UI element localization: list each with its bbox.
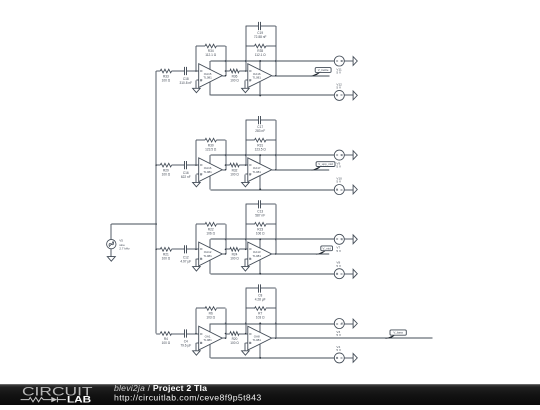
node op2 inverting input junction (245, 333, 247, 335)
svg-text:106 Ω: 106 Ω (256, 232, 265, 236)
op-amp OA15 (199, 64, 223, 88)
svg-text:TL081: TL081 (252, 170, 261, 174)
svg-text:103 Ω: 103 Ω (206, 316, 215, 320)
wire feedback1 right leg (225, 309, 227, 339)
wire output net V_treble (276, 75, 330, 77)
node op2 V- junction (259, 357, 261, 359)
svg-text:106 Ω: 106 Ω (206, 232, 215, 236)
op-amp OA1 (199, 326, 223, 350)
op-amp OA8 (248, 326, 272, 350)
ground (V- source return) (344, 269, 357, 278)
svg-text:V_mid: V_mid (323, 246, 332, 250)
resistor R29 (156, 163, 185, 176)
ground (op2 non-inverting input) (242, 343, 250, 355)
wire op2 V+ pin (259, 324, 261, 333)
resistor R4 (156, 332, 185, 345)
wire op1 V- pin (209, 176, 211, 190)
svg-text:310.8 nF: 310.8 nF (180, 81, 193, 85)
capacitor C4 (180, 329, 198, 347)
ground (V+ source return) (344, 235, 357, 244)
wire V- supply rail (211, 94, 335, 96)
wire op2 V- pin (259, 344, 261, 358)
voltage source V9 (334, 150, 344, 169)
node op2 inverting input junction (245, 164, 247, 166)
svg-text:4.97 µF: 4.97 µF (180, 259, 191, 263)
svg-text:283 nF: 283 nF (255, 129, 265, 133)
ground (op1 non-inverting input) (193, 259, 201, 271)
wire op1 V- pin (209, 344, 211, 358)
wire V- supply rail (211, 273, 335, 275)
CircuitLab logo resistor-diode squiggle (21, 397, 66, 402)
wire V- supply rail (211, 357, 335, 359)
ground (V+ source return) (344, 319, 357, 328)
node op1 inverting input junction (195, 164, 197, 166)
wire op2 output stub (272, 253, 276, 255)
node op2 V- junction (259, 94, 261, 96)
node op2 output (275, 253, 277, 255)
wire op2 V+ pin (259, 239, 261, 248)
svg-text:72.88 nF: 72.88 nF (254, 35, 267, 39)
svg-text:4.28 µF: 4.28 µF (255, 298, 266, 302)
ground (op2 non-inverting input) (242, 80, 250, 93)
svg-text:100 Ω: 100 Ω (162, 172, 171, 176)
node net flag V_mid (316, 246, 333, 255)
node op2 V+ junction (259, 60, 261, 62)
resistor R24 (226, 247, 248, 260)
resistor R32 (226, 163, 248, 176)
op-amp OA17 (248, 158, 272, 182)
svg-text:V_upp_mid: V_upp_mid (318, 162, 333, 166)
svg-text:103 Ω: 103 Ω (256, 316, 265, 320)
wire V+ supply rail (211, 60, 335, 62)
svg-text:TL081: TL081 (203, 338, 212, 342)
node op1 feedback/input (225, 70, 227, 72)
voltage source V3 (334, 319, 344, 338)
resistor R34 (op1 feedback) (196, 44, 226, 76)
resistor R20 (226, 332, 248, 345)
wire feedback1 right leg (225, 140, 227, 170)
node rail crossing marks (225, 322, 277, 324)
ground (op2 non-inverting input) (242, 259, 250, 271)
voltage source V4 (334, 345, 344, 363)
ground (V- source return) (344, 354, 357, 363)
svg-text:TL081: TL081 (252, 254, 261, 258)
svg-text:TL081: TL081 (252, 76, 261, 80)
capacitor C8 (op2 feedback) (246, 284, 276, 333)
node op2 output (275, 169, 277, 171)
wire V+ supply rail (211, 154, 335, 156)
node op2 V- junction (259, 273, 261, 275)
node rail crossing marks (225, 238, 277, 240)
wire op2 V+ pin (259, 61, 261, 70)
wire op1 V+ pin (209, 324, 211, 333)
svg-text:100 Ω: 100 Ω (230, 78, 239, 82)
capacitor C17 (op2 feedback) (246, 116, 276, 165)
voltage source V8 (334, 261, 344, 279)
wire V- supply rail (211, 189, 335, 191)
svg-text:112.1 Ω: 112.1 Ω (205, 53, 217, 57)
wire op2 V- pin (259, 176, 261, 190)
svg-text:123.5 Ω: 123.5 Ω (205, 147, 217, 151)
wire feedback2 right leg (275, 120, 277, 170)
wire op2 V- pin (259, 82, 261, 96)
wire feedback2 right leg (275, 204, 277, 254)
resistor R31 (op2 feedback) (246, 120, 276, 170)
wire op2 output stub (272, 169, 276, 171)
node net flag V_treble (310, 68, 331, 77)
resistor R30 (op1 feedback) (196, 138, 226, 170)
wire op1 V+ pin (209, 239, 211, 248)
node source/bus junction (155, 223, 157, 225)
svg-text:79.6 µF: 79.6 µF (180, 344, 191, 348)
voltage source V11 (334, 56, 344, 75)
svg-text:V_bass: V_bass (393, 331, 403, 335)
svg-text:TL081: TL081 (252, 338, 261, 342)
wire op1 V- pin (209, 82, 211, 96)
svg-text:100 Ω: 100 Ω (230, 341, 239, 345)
ground (V- source return) (344, 91, 357, 100)
node rail crossing marks (225, 60, 277, 62)
wire feedback2 right leg (275, 289, 277, 339)
resistor R33 (156, 69, 185, 82)
node op2 output (275, 75, 277, 77)
svg-text:V_treble: V_treble (318, 68, 329, 72)
resistor R21 (156, 247, 185, 260)
op-amp OA13 (248, 242, 272, 266)
node op1 feedback/input (225, 164, 227, 166)
svg-text:TL081: TL081 (203, 170, 212, 174)
wire source to bus (111, 224, 156, 239)
resistor R35 (op2 feedback) (246, 26, 276, 76)
voltage source V10 (334, 177, 344, 195)
ground (V+ source return) (344, 151, 357, 160)
op-amp OA16 (248, 64, 272, 88)
node op2 V+ junction (259, 323, 261, 325)
wire op2 V- pin (259, 260, 261, 274)
wire output net V_mid (276, 253, 330, 255)
node op1 output (225, 337, 227, 339)
wire feedback1 right leg (225, 46, 227, 76)
resistor R6 (op1 feedback) (196, 307, 226, 339)
node op2 inverting input junction (245, 70, 247, 72)
wire op2 V+ pin (259, 155, 261, 164)
svg-text:622 nF: 622 nF (181, 175, 191, 179)
node op1 feedback/input (225, 249, 227, 251)
ground (op1 non-inverting input) (193, 80, 201, 93)
resistor R7 (op2 feedback) (246, 289, 276, 339)
wire op1 output stub (222, 253, 225, 255)
svg-text:100 Ω: 100 Ω (162, 257, 171, 261)
wire op1 V+ pin (209, 155, 211, 164)
svg-text:100 Ω: 100 Ω (162, 341, 171, 345)
svg-text:100 Ω: 100 Ω (230, 172, 239, 176)
node op2 V+ junction (259, 154, 261, 156)
node op2 inverting input junction (245, 249, 247, 251)
svg-text:123.5 Ω: 123.5 Ω (255, 147, 267, 151)
ground (op1 non-inverting input) (193, 343, 201, 355)
wire output net V_bass (276, 337, 433, 339)
wire op2 output stub (272, 75, 276, 77)
wire op2 output stub (272, 337, 276, 339)
ground (op2 non-inverting input) (242, 174, 250, 187)
wire feedback2 right leg (275, 26, 277, 76)
capacitor C16 (181, 161, 199, 179)
node op2 V+ junction (259, 238, 261, 240)
wire V+ supply rail (211, 323, 335, 325)
node net flag V_upp_mid (311, 162, 335, 171)
wire op1 output stub (222, 337, 225, 339)
svg-text:http://circuitlab.com/ceve8f9p: http://circuitlab.com/ceve8f9p5t843 (114, 392, 262, 402)
node bus/stage2 junction (155, 164, 157, 166)
wire input bus (155, 71, 157, 334)
wire output net V_upp_mid (276, 169, 330, 171)
voltage source V5 (sine input) (107, 239, 131, 251)
node op1 inverting input junction (195, 333, 197, 335)
wire op1 V- pin (209, 260, 211, 274)
wire op1 output stub (222, 169, 225, 171)
node op1 feedback/input (225, 333, 227, 335)
node rail crossing marks (225, 154, 277, 156)
svg-text:TL081: TL081 (203, 254, 212, 258)
ground (op1 non-inverting input) (193, 174, 201, 187)
node bus/stage3 junction (155, 249, 157, 251)
node op2 output (275, 337, 277, 339)
op-amp OA12 (199, 242, 223, 266)
wire feedback1 right leg (225, 224, 227, 254)
node op1 output (225, 253, 227, 255)
capacitor C13 (op2 feedback) (246, 200, 276, 249)
resistor R22 (op1 feedback) (196, 222, 226, 254)
svg-text:100 Ω: 100 Ω (162, 78, 171, 82)
node op1 output (225, 169, 227, 171)
resistor R23 (op2 feedback) (246, 204, 276, 254)
wire V+ supply rail (211, 238, 335, 240)
svg-text:TL081: TL081 (203, 76, 212, 80)
svg-text:LAB: LAB (67, 395, 92, 405)
capacitor C18 (180, 67, 199, 85)
svg-text:2.7 kHz: 2.7 kHz (119, 247, 130, 251)
svg-text:587 nF: 587 nF (255, 213, 265, 217)
op-amp OA16 (199, 158, 223, 182)
voltage source V12 (334, 82, 344, 100)
resistor R36 (226, 69, 248, 82)
wire op1 output stub (222, 75, 225, 77)
wire op1 V+ pin (209, 61, 211, 70)
svg-text:100 Ω: 100 Ω (230, 257, 239, 261)
node op2 V- junction (259, 189, 261, 191)
ground (below source V5) (107, 249, 115, 261)
capacitor C12 (180, 245, 198, 263)
voltage source V7 (334, 234, 344, 253)
capacitor C19 (op2 feedback) (246, 22, 276, 71)
node op1 inverting input junction (195, 249, 197, 251)
node op1 inverting input junction (195, 70, 197, 72)
ground (V+ source return) (344, 57, 357, 66)
node op1 output (225, 75, 227, 77)
ground (V- source return) (344, 185, 357, 194)
node net flag V_bass (385, 330, 407, 339)
svg-text:112.1 Ω: 112.1 Ω (255, 53, 267, 57)
